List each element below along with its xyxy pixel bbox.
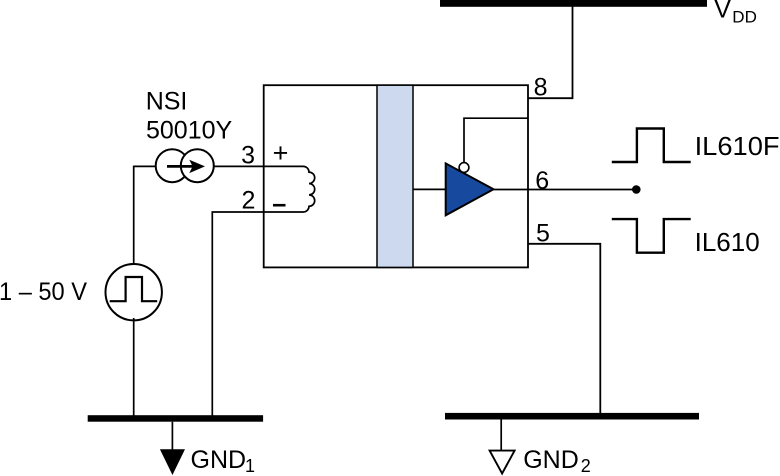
wire bubble to pin 8 net bbox=[464, 118, 528, 162]
current source NSI (two overlapping circles) bbox=[156, 149, 214, 182]
GND2 triangle (open) bbox=[490, 451, 515, 474]
svg-text:1: 1 bbox=[245, 456, 255, 476]
svg-text:8: 8 bbox=[534, 74, 548, 102]
svg-text:IL610: IL610 bbox=[695, 227, 760, 257]
VDD label bbox=[714, 0, 757, 27]
GND1 stub wire bbox=[171, 422, 173, 450]
VDD power rail bar bbox=[440, 0, 707, 7]
svg-text:3: 3 bbox=[241, 142, 255, 170]
GND2 bar bbox=[445, 413, 699, 420]
GND1 triangle (filled) bbox=[160, 449, 185, 475]
svg-text:GND: GND bbox=[191, 446, 247, 474]
input coil L1 bbox=[264, 166, 315, 212]
GND1 bar bbox=[88, 415, 263, 422]
svg-text:NSI: NSI bbox=[146, 88, 188, 116]
svg-text:GND: GND bbox=[523, 446, 579, 474]
svg-text:IL610F: IL610F bbox=[695, 131, 780, 161]
svg-text:6: 6 bbox=[535, 167, 549, 195]
wire inverter input bbox=[413, 188, 446, 190]
wire pin 2 to GND1 bbox=[212, 212, 263, 418]
wire pin 5 to GND2 bbox=[528, 244, 600, 414]
node dot output bbox=[632, 185, 641, 194]
pulse voltage source V1 bbox=[106, 264, 162, 320]
svg-text:2: 2 bbox=[241, 187, 255, 215]
IL610 waveform (negative pulse) bbox=[612, 219, 691, 253]
NSI 50010Y label bbox=[146, 88, 233, 145]
svg-text:V: V bbox=[714, 0, 731, 23]
wire current source to pulse source bbox=[133, 166, 135, 266]
wire pin 3 (box edge to current source) bbox=[134, 165, 264, 167]
svg-text:50010Y: 50010Y bbox=[146, 117, 233, 145]
svg-text:2: 2 bbox=[581, 456, 591, 476]
isolation barrier bbox=[377, 85, 413, 267]
wire pin 6 to node bbox=[494, 189, 635, 191]
wire VDD rail to pin 8 bbox=[528, 6, 573, 98]
IL610F waveform (positive pulse) bbox=[612, 129, 691, 163]
IC body U1 bbox=[264, 85, 528, 267]
wire pulse source to GND1 bbox=[133, 318, 135, 418]
svg-text:DD: DD bbox=[732, 8, 757, 27]
svg-text:1 – 50 V: 1 – 50 V bbox=[0, 278, 87, 306]
GND2 stub wire bbox=[500, 420, 502, 451]
minus sign bbox=[273, 204, 286, 207]
inverter U1 buffer bbox=[446, 163, 494, 216]
svg-text:+: + bbox=[273, 138, 289, 168]
GND1 label bbox=[191, 446, 256, 476]
GND2 label bbox=[523, 446, 591, 476]
